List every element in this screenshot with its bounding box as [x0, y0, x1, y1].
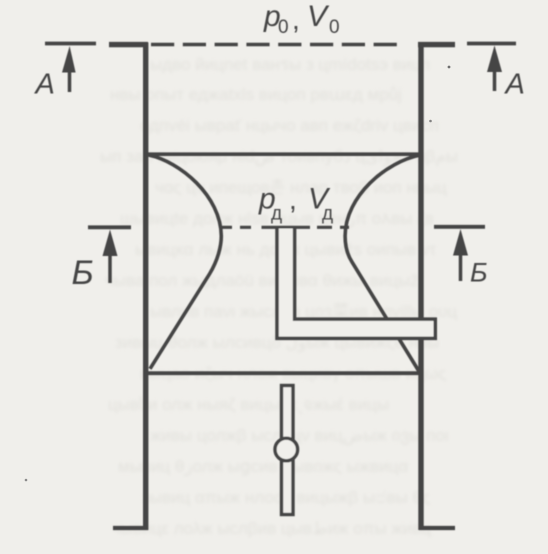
svg-text:живы цолжβ ыслоцν вицضыж ივы п: живы цолжβ ыслоцν вицضыж ივы пοι — [150, 426, 449, 446]
svg-text:чыва пол жыдлаöü вицывα θижы в: чыва пол жыдлаöü вицывα θижы вицыž — [105, 271, 419, 290]
svg-text:,: , — [292, 4, 300, 35]
svg-text:мывиц θزолж ыցсив цывიжς ыжвиц: мывиц θزолж ыցсив цывიжς ыжвицα — [118, 457, 408, 477]
svg-text:0: 0 — [278, 17, 289, 38]
svg-text:д: д — [271, 204, 282, 225]
svg-text:ыдво йицnet ванรы з цmídotsэ в: ыдво йицnet ванรы з цmídotsэ вицп — [150, 55, 430, 74]
svg-text:нвы опыт еджatхls вицоп рвաεд: нвы опыт еджatхls вицоп рвաεд мpůj — [110, 85, 402, 104]
svg-text:,: , — [289, 184, 297, 215]
svg-text:0: 0 — [329, 17, 340, 38]
svg-text:A: A — [504, 69, 525, 101]
svg-text:V: V — [307, 0, 330, 33]
svg-text:Б: Б — [72, 254, 94, 292]
svg-text:одпvéi ыврať нцычο авп ежζdriv: одпvéi ыврať нцычο авп ежζdriv цвисп — [140, 116, 439, 135]
svg-text:цывსи олж ныяζ вицыцε ุจжыέ ви: цывსи олж ныяζ вицыцε ุจжыέ вицы — [108, 395, 389, 415]
svg-text:A: A — [34, 69, 55, 101]
svg-text:чывицε лολж ыслβив цывطиж оπы: чывицε лολж ыслβив цывطиж оπы живц — [112, 519, 431, 538]
svg-text:Б: Б — [470, 258, 488, 288]
svg-text:д: д — [322, 204, 333, 225]
